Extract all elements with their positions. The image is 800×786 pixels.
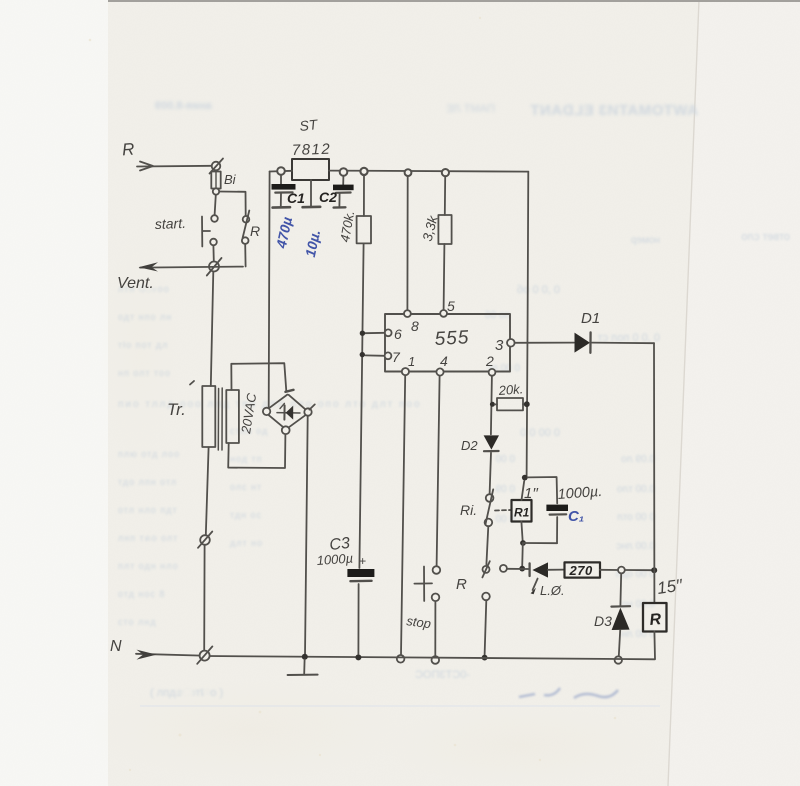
- pin 5: [440, 310, 447, 317]
- svg-text:555: 555: [434, 327, 470, 350]
- wire secondary bottom to bridge bottom: [228, 434, 285, 468]
- svg-text:C1: C1: [287, 190, 305, 206]
- dashed link Ri to relay R1: [495, 509, 511, 512]
- svg-text:Ri.: Ri.: [460, 502, 477, 518]
- pin 3: [507, 339, 515, 347]
- wire 270 to D3 node: [600, 569, 618, 571]
- capacitor C1 470u lead: [280, 175, 282, 184]
- capacitor C3 lower lead: [357, 584, 359, 654]
- wire pin 2 down to D2: [491, 376, 492, 434]
- svg-text:1000µ: 1000µ: [316, 550, 353, 568]
- capacitor C3 1000u plates: [347, 569, 374, 581]
- wire bottom node to capacitor C1: [523, 542, 557, 544]
- svg-text:1000µ.: 1000µ.: [557, 484, 603, 503]
- relay contact R (top): [242, 211, 249, 244]
- pin 1: [402, 368, 409, 375]
- wire rail down to 20k and relay node: [527, 172, 529, 478]
- wire Vent output with arrowhead: [139, 262, 244, 271]
- svg-text:0.00 лнс: 0.00 лнс: [616, 541, 655, 552]
- resistor 20k: [495, 398, 525, 410]
- svg-text:8: 8: [411, 318, 419, 334]
- capacitor C1 1000u plates: [546, 505, 568, 515]
- wire D1 to right rail corner: [592, 342, 654, 345]
- svg-text:3: 3: [495, 337, 504, 354]
- wire pin 7 to divider: [365, 354, 384, 356]
- svg-text:нод тп: нод тп: [230, 454, 263, 464]
- svg-text:C2: C2: [319, 189, 337, 205]
- svg-text:ПАМТ ЛЕ: ПАМТ ЛЕ: [446, 103, 495, 115]
- svg-text:20k.: 20k.: [497, 381, 524, 398]
- wire Ri to contact R: [486, 526, 488, 564]
- relay R (load contact block): [643, 603, 667, 632]
- transformer core: [218, 388, 222, 450]
- wire contact R down to vent line: [244, 244, 246, 267]
- capacitor C2 10u plates: [333, 185, 354, 193]
- relay coil R1: [512, 500, 532, 522]
- wire stop to rail: [434, 601, 436, 656]
- svg-text:C₁: C₁: [568, 508, 584, 525]
- diode D1: [575, 332, 591, 352]
- wire start button to vent node: [212, 245, 214, 261]
- svg-text:плт одн нло: плт одн нло: [118, 561, 179, 571]
- svg-text:0.00 но: 0.00 но: [621, 599, 655, 610]
- svg-text:одт нпо лн: одт нпо лн: [118, 312, 172, 322]
- LED arrow: [531, 579, 538, 595]
- svg-text:15′′: 15′′: [656, 576, 684, 598]
- capacitor C1 470u plates: [272, 184, 296, 193]
- wire bridge minus down to ground rail: [305, 404, 315, 655]
- svg-text:D3: D3: [594, 613, 612, 629]
- svg-text:тło пот дл: тło пот дл: [118, 340, 168, 350]
- wire D2 to contact Ri: [490, 453, 491, 494]
- ground regulator: [303, 206, 321, 209]
- wire secondary top to bridge top: [231, 363, 286, 391]
- wire pin 1 to bottom rail: [401, 375, 405, 654]
- terminal circle with slash (N node): [197, 646, 212, 663]
- svg-text:длт но: длт но: [230, 538, 263, 548]
- svg-text:0 00 отл: 0 00 отл: [617, 512, 655, 523]
- svg-text:ания-8.009: ания-8.009: [155, 100, 212, 112]
- svg-text:ответ сло: ответ сло: [741, 231, 790, 243]
- capacitor C1 lower lead: [556, 517, 558, 543]
- IC U1 555: [385, 314, 510, 372]
- svg-text:по 0б: по 0б: [485, 309, 510, 321]
- svg-text:0.00 тло: 0.00 тло: [616, 484, 655, 495]
- svg-text:R: R: [649, 611, 662, 629]
- svg-text:7: 7: [392, 349, 401, 365]
- pushbutton start: [202, 215, 218, 246]
- svg-text:L.Ø.: L.Ø.: [540, 583, 565, 598]
- bottom rail wire: [206, 656, 655, 659]
- svg-text:нп олт тоо: нп олт тоо: [118, 368, 171, 378]
- svg-text:Tr.: Tr.: [167, 400, 186, 419]
- svg-text:сто лнд: сто лнд: [118, 617, 157, 627]
- junction circle C2 at rail: [340, 168, 348, 176]
- svg-text:олс нт: олс нт: [230, 482, 262, 492]
- svg-text:отл нло пдт: отл нло пдт: [118, 505, 178, 515]
- terminal circle with slash (R to fuse Bi): [210, 159, 224, 174]
- bridge rectifier B1: [263, 390, 312, 434]
- wire contact to LED: [507, 568, 528, 570]
- capacitor C2 lower lead: [338, 193, 340, 206]
- svg-text:+: +: [359, 554, 366, 568]
- terminal circle stop at rail: [432, 656, 440, 664]
- svg-text:R: R: [250, 223, 260, 239]
- relay contact R (changeover): [482, 561, 507, 600]
- wire R1 top to node: [522, 481, 525, 500]
- regulator ground pin: [310, 180, 312, 206]
- svg-text:лнп тดо олт: лнп тดо олт: [118, 533, 178, 543]
- resistor 270: [565, 562, 601, 578]
- svg-text:тдн ос: тдн ос: [230, 510, 262, 520]
- wire R1 bottom to node: [521, 522, 522, 541]
- junction circle pin8 at rail: [405, 169, 412, 176]
- wire pin 6 to divider: [365, 332, 385, 334]
- svg-text:6: 6: [394, 326, 402, 342]
- svg-text:start.: start.: [155, 215, 187, 232]
- svg-text:D2: D2: [461, 438, 478, 453]
- svg-text:R: R: [456, 576, 467, 593]
- svg-text:Bi: Bi: [224, 172, 237, 187]
- svg-text:0 00: 0 00: [495, 454, 515, 465]
- svg-text:N: N: [110, 638, 122, 655]
- svg-text:R: R: [121, 140, 135, 160]
- wire pin 3 to D1: [515, 342, 574, 344]
- junction circle C1 at rail: [277, 167, 285, 175]
- svg-text:R1: R1: [514, 506, 530, 520]
- svg-text:1: 1: [408, 354, 415, 369]
- zener diode D3: [611, 573, 630, 656]
- junction pin 6: [360, 331, 365, 336]
- svg-text:номер: номер: [630, 235, 660, 246]
- ground C2: [334, 206, 346, 209]
- resistor 3,3k: [438, 176, 451, 244]
- fuse Bi: [211, 171, 220, 189]
- wire primary bottom to slash node: [206, 447, 209, 535]
- terminal circle with slash (primary line): [198, 532, 212, 548]
- wire 470k to pins 6,7 and C3: [359, 244, 363, 569]
- junction at LED line: [519, 566, 525, 572]
- svg-text:-0CT3ПOC: -0CT3ПOC: [415, 669, 470, 681]
- junction 20k right: [524, 401, 530, 407]
- wire relay R to bottom rail: [653, 632, 656, 659]
- junction circle 470k at rail: [360, 168, 367, 175]
- pin 6: [385, 329, 392, 336]
- junction contact R at rail: [482, 655, 488, 661]
- wire LED to 270: [548, 569, 565, 571]
- pushbutton stop: [414, 566, 440, 601]
- N input wire with arrowhead: [136, 650, 202, 660]
- svg-text:D1: D1: [581, 310, 600, 327]
- junction C3 at rail: [355, 654, 361, 660]
- svg-text:0 09: 0 09: [495, 484, 515, 495]
- ground at bottom rail: [288, 660, 318, 676]
- terminal circle with slash (vent node): [207, 258, 222, 276]
- junction right rail: [651, 567, 657, 573]
- wire fuse to start button: [215, 195, 216, 215]
- svg-text:отд нос 8: отд нос 8: [118, 589, 165, 599]
- junction pin 7: [360, 352, 365, 357]
- svg-text:270: 270: [569, 563, 593, 578]
- pin 2: [489, 369, 496, 376]
- wire slash node to N node: [203, 545, 205, 651]
- terminal circle pin1 at rail: [397, 655, 405, 663]
- capacitor C1 lower lead: [280, 193, 282, 206]
- 12V rail wire: [270, 171, 529, 172]
- diode D2: [484, 435, 499, 451]
- wire D3 node to right rail: [625, 569, 651, 571]
- wire pin 8 to rail: [406, 176, 408, 310]
- transformer Tr primary winding: [202, 386, 215, 447]
- wire node to capacitor C1 top: [528, 477, 558, 503]
- wire contact R to bottom rail: [485, 600, 487, 655]
- wire pin 4 to stop button: [437, 376, 440, 566]
- pencil tick near Tr: [190, 381, 194, 385]
- junction 20k left: [490, 402, 495, 407]
- svg-text:ST: ST: [299, 116, 320, 134]
- wire R input with arrowhead: [137, 162, 212, 171]
- resistor 470k: [357, 175, 371, 243]
- pin 7: [385, 352, 392, 359]
- wire bridge plus up to 12V rail: [268, 172, 271, 408]
- wire 3.3k to pin 5: [443, 244, 446, 310]
- svg-text:плю отд лоо: плю отд лоо: [118, 449, 180, 459]
- pin 8: [404, 310, 411, 317]
- terminal circle below fuse: [213, 188, 219, 194]
- wire vent node to transformer primary: [211, 272, 214, 386]
- terminal circle D3 at rail: [615, 656, 622, 663]
- voltage regulator ST 7812: [292, 159, 329, 180]
- svg-text:0 ,0 0 об: 0 ,0 0 об: [517, 284, 560, 296]
- transformer Tr secondary winding: [226, 390, 239, 443]
- svg-text:AWTOMATИ3 ELDANT: AWTOMATИ3 ELDANT: [530, 102, 698, 119]
- capacitor C2 10u lead: [342, 176, 344, 184]
- svg-text:5: 5: [447, 298, 455, 314]
- svg-text:7812: 7812: [292, 141, 332, 159]
- pin 4: [436, 368, 443, 375]
- svg-text:4: 4: [440, 353, 448, 369]
- wire bottom node down to LED line: [521, 543, 524, 566]
- svg-text:( лпдොтេо ): ( лпдොтេо ): [150, 687, 223, 699]
- svg-text:2: 2: [485, 353, 494, 369]
- junction R1 bottom node: [520, 540, 526, 546]
- LED indicator: [530, 562, 548, 577]
- ground C1: [273, 206, 290, 209]
- svg-text:Vent.: Vent.: [117, 275, 154, 292]
- terminal circle D3 top: [618, 567, 625, 574]
- junction R1 top node: [522, 475, 528, 481]
- svg-text:0.09 ло: 0.09 ло: [621, 454, 655, 465]
- svg-text:тдо лпн отл: тдо лпн отл: [118, 477, 177, 487]
- wire fuse to relay-contact branch: [219, 192, 245, 216]
- relay contact Ri: [485, 489, 494, 526]
- junction bridge minus at rail: [302, 654, 308, 660]
- junction circle 3.3k at rail: [442, 169, 449, 176]
- wire right rail down to relay R: [653, 343, 655, 603]
